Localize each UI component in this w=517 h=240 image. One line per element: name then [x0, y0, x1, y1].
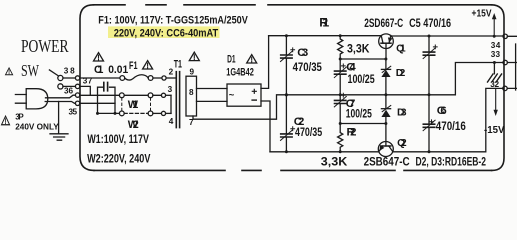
connector pin 33 (0V) [503, 60, 507, 64]
capacitor C7 [339, 95, 341, 101]
svg-text:8: 8 [189, 88, 194, 97]
svg-text:+15V: +15V [472, 8, 492, 20]
svg-text:F1: F1 [129, 60, 138, 72]
chassis ground on pin33 net [493, 63, 495, 74]
svg-text:3,3K: 3,3K [347, 42, 370, 56]
svg-text:32: 32 [490, 80, 499, 89]
svg-text:C6: C6 [437, 105, 447, 117]
connector pin 36 [75, 93, 79, 97]
svg-text:D2: D2 [396, 68, 406, 79]
fuse F1 [120, 76, 125, 81]
svg-text:7: 7 [189, 118, 194, 127]
wire secondary to bridge input 1 [197, 88, 228, 90]
svg-text:POWER: POWER [21, 36, 69, 56]
svg-text:SW: SW [21, 61, 39, 80]
highlight for 220V/240V fuse note [108, 26, 220, 38]
mid rail (0V) [286, 63, 503, 95]
switch SW lever [49, 70, 58, 76]
wire plug line A to pin 36 [46, 95, 76, 98]
junction dots [285, 34, 496, 153]
transformer T1 core [176, 72, 179, 128]
winding W1 row [119, 93, 124, 98]
wire pin36 along W1 row [80, 94, 120, 96]
svg-text:R2: R2 [347, 127, 357, 139]
transistor Q1 [379, 34, 394, 49]
zener D2 [385, 59, 387, 69]
transistor Q2 [378, 142, 393, 157]
svg-text:36: 36 [64, 87, 73, 96]
connector pin 35 [75, 101, 79, 105]
svg-text:W2: W2 [128, 119, 139, 131]
svg-text:~: ~ [229, 90, 235, 101]
svg-text:38: 38 [64, 66, 75, 75]
wire switch to pin 38 [63, 77, 75, 79]
svg-text:2SD667-C: 2SD667-C [364, 16, 403, 30]
wires through right pins to adjacent block [507, 36, 516, 88]
T1 primary terminal 2 [162, 76, 166, 80]
bridge plus mark [252, 89, 256, 93]
svg-text:T1: T1 [174, 58, 182, 70]
adjacent block edge at right image margin [515, 44, 517, 90]
wire C1 left to W2 row [98, 87, 103, 113]
junction dots C1 drops [96, 112, 99, 115]
wire bridge minus output to bottom rail [261, 101, 270, 152]
wire Q1 base [385, 43, 387, 59]
svg-text:D1: D1 [227, 53, 236, 65]
svg-text:D3: D3 [397, 108, 407, 119]
transformer T1 secondary winding [186, 76, 197, 116]
svg-text:470/35: 470/35 [295, 125, 322, 139]
T1 primary terminal 3 [161, 93, 165, 97]
warning triangle near D1 [247, 55, 257, 63]
connector pin 37 [75, 84, 79, 88]
wire center tap to mid rail [193, 95, 286, 119]
warning triangle near 3P [2, 116, 10, 125]
wire R1/D2 base node [340, 58, 386, 60]
svg-text:2: 2 [169, 67, 174, 76]
svg-text:C5 470/16: C5 470/16 [409, 16, 451, 30]
wire R2/D3 base node [340, 123, 386, 125]
bottom rail (raw - / -15V) [270, 88, 503, 151]
connector pin 32 (-15V) [503, 86, 507, 90]
wire plug earth drop [58, 102, 60, 134]
earth ground symbol [50, 134, 68, 140]
svg-text:W2:220V, 240V: W2:220V, 240V [87, 152, 150, 166]
warning triangle near F1 [143, 61, 153, 69]
svg-text:R1: R1 [319, 15, 329, 29]
svg-text:C3: C3 [297, 47, 308, 59]
winding W2 row [98, 112, 120, 114]
wire fuse to T1 pin2 [153, 77, 162, 79]
wire pin38 to fuse [80, 77, 120, 79]
capacitor C5 [428, 36, 430, 52]
T1 primary terminal 4 [161, 111, 165, 115]
svg-text:0.01: 0.01 [108, 64, 128, 76]
capacitor C6 [428, 95, 430, 124]
wire secondary to bridge input 2 [197, 100, 228, 102]
svg-text:9: 9 [190, 68, 195, 77]
svg-text:220V, 240V: CC6-40mAT: 220V, 240V: CC6-40mAT [114, 27, 219, 39]
svg-text:35: 35 [69, 107, 78, 116]
svg-text:37: 37 [83, 76, 93, 85]
svg-text:470/35: 470/35 [293, 60, 322, 74]
connector pin 38 [75, 76, 79, 80]
svg-text:33: 33 [491, 50, 501, 59]
plug pin stubs [15, 95, 26, 104]
wire Q2 base [385, 124, 387, 147]
capacitor C2 [285, 95, 287, 134]
warning triangle near C1 [94, 53, 104, 61]
warning triangle near T1 [189, 52, 199, 60]
svg-text:4: 4 [169, 117, 174, 126]
svg-text:100/25: 100/25 [348, 72, 375, 86]
svg-text:34: 34 [491, 41, 501, 50]
svg-text:100/25: 100/25 [346, 106, 372, 120]
resistor R2 [338, 124, 343, 152]
AC plug P1 body [26, 89, 48, 109]
svg-text:Q1: Q1 [396, 44, 406, 55]
svg-text:240V ONLY: 240V ONLY [15, 121, 59, 131]
resistor R1 [338, 36, 343, 59]
svg-text:F1: 100V, 117V: T-GGS125mA/250: F1: 100V, 117V: T-GGS125mA/250V [98, 15, 248, 27]
wire plug line B to pin 35 [45, 102, 75, 104]
top rail (raw + / +15V) [269, 35, 503, 37]
capacitor C3 [285, 36, 287, 55]
connector pin 34 (+15V) [503, 34, 507, 38]
wire pin35 to C1 drop [80, 102, 115, 104]
-15V arrow [495, 88, 497, 110]
wire switch to pin 37 [63, 85, 75, 87]
capacitor C1 plates [104, 82, 108, 90]
wire bridge plus output to top rail [261, 36, 269, 89]
switch SW contacts [58, 75, 63, 80]
svg-text:D2, D3:RD16EB-2: D2, D3:RD16EB-2 [416, 154, 487, 168]
enclosure dashed border [80, 5, 504, 171]
warning triangle near SW [5, 68, 12, 75]
svg-text:-15V: -15V [484, 124, 505, 136]
primary winding link [170, 95, 172, 113]
svg-text:W1:100V, 117V: W1:100V, 117V [87, 132, 148, 146]
svg-text:470/16: 470/16 [436, 119, 466, 133]
tap link dashed [121, 98, 123, 111]
svg-text:W1: W1 [128, 99, 139, 111]
capacitor C4 [339, 59, 341, 71]
+15V arrow [493, 19, 495, 36]
wire pin37 down to W1 row [80, 86, 91, 95]
svg-text:3P: 3P [15, 112, 24, 121]
bridge minus mark [252, 99, 256, 101]
svg-text:C1: C1 [94, 64, 103, 76]
bridge rectifier D1 [227, 84, 261, 106]
zener D3 [385, 95, 387, 109]
svg-text:3,3K: 3,3K [321, 154, 348, 168]
svg-text:2SB647-C: 2SB647-C [364, 154, 410, 168]
svg-text:Q2: Q2 [397, 138, 407, 149]
svg-text:1G4B42: 1G4B42 [226, 67, 254, 79]
svg-text:3: 3 [168, 85, 173, 94]
wire C1 right to pin35 wire and W2 row [110, 87, 116, 113]
